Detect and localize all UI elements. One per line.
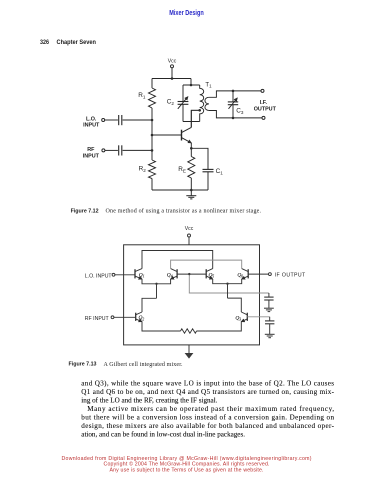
transistor Q5 (136, 312, 142, 322)
Vcc terminal (171, 65, 174, 79)
svg-text:One method of using a transist: One method of using a transistor as a no… (106, 208, 262, 215)
svg-text:RF: RF (87, 147, 95, 153)
wire secondary top (209, 91, 261, 97)
svg-text:Q5: Q5 (209, 272, 215, 278)
wire bases to bypass (189, 274, 269, 293)
svg-text:326: 326 (40, 39, 49, 46)
capacitor bypass B (265, 317, 274, 334)
svg-text:INPUT: INPUT (83, 153, 100, 159)
svg-text:Q1: Q1 (139, 272, 145, 278)
IF output terminal (248, 273, 271, 276)
resistor R1 (149, 88, 156, 108)
wire emitter (190, 143, 192, 148)
wire Q6 base to bypass (247, 316, 269, 318)
footer (62, 456, 312, 474)
svg-text:L.O.: L.O. (86, 116, 97, 122)
resistor RE (188, 148, 195, 190)
svg-text:R1: R1 (138, 92, 146, 99)
labels fig 7.12 (83, 59, 277, 176)
wire tap to collector (191, 110, 199, 127)
wire bases Q2-Q3 (177, 273, 206, 275)
capacitor C2 variable (178, 85, 189, 122)
transistor Q1 (182, 127, 192, 142)
transistor Q3 (206, 269, 227, 284)
wire collectors Q1-Q3 (142, 251, 213, 269)
wire tank top (183, 84, 200, 86)
svg-text:Q2: Q2 (139, 315, 145, 321)
transistor Q6 (241, 312, 247, 322)
capacitor bypass A (264, 293, 273, 308)
svg-text:Mixer Design: Mixer Design (169, 8, 204, 17)
RF input terminal (102, 149, 118, 152)
L.O. input terminal (102, 119, 118, 122)
svg-text:RF INPUT: RF INPUT (85, 316, 110, 322)
ground bypass B (265, 334, 275, 337)
IF output terminal top (261, 89, 264, 92)
junction dots fig 7.13 (155, 273, 228, 285)
ground (186, 190, 196, 199)
wire emitters down left (156, 284, 158, 299)
svg-text:Q4: Q4 (167, 272, 173, 278)
wire Q5 collector (142, 298, 157, 312)
body text (81, 380, 334, 439)
wire secondary bottom (209, 111, 262, 118)
transformer T1 secondary (205, 97, 209, 110)
wire LO to bus (123, 119, 152, 121)
IF output terminal bottom (262, 116, 265, 119)
capacitor LO coupling (119, 115, 122, 125)
svg-text:ing of the LO and the RF, crea: ing of the LO and the RF, creating the I… (81, 397, 217, 405)
wire collector (191, 110, 199, 127)
svg-text:INPUT: INPUT (83, 123, 100, 129)
wire emitters down right (227, 284, 229, 298)
transformer T1 primary (200, 85, 204, 122)
wire Q5 emitter (142, 322, 181, 331)
svg-text:Any use is subject to the Term: Any use is subject to the Terms of Use a… (110, 468, 264, 474)
svg-text:Chapter Seven: Chapter Seven (57, 39, 97, 46)
svg-text:T1: T1 (205, 82, 212, 88)
svg-text:A Gilbert cell integrated mixe: A Gilbert cell integrated mixer. (104, 362, 184, 368)
svg-text:C2: C2 (167, 98, 175, 105)
svg-text:Q1 and Q6 to be on, and next Q: Q1 and Q6 to be on, and next Q4 and Q5 t… (81, 388, 334, 396)
svg-text:design, these mixers are also: design, these mixers are also available … (81, 422, 334, 430)
svg-text:I.F.: I.F. (260, 100, 268, 106)
svg-text:IF OUTPUT: IF OUTPUT (275, 273, 306, 279)
capacitor C1 (191, 148, 213, 190)
resistor emitter degeneration (181, 329, 197, 333)
wire Q6 emitter (197, 322, 242, 331)
wire bottom rail (152, 189, 208, 191)
wire to tank (190, 79, 192, 86)
svg-text:but there will be a conversion: but there will be a conversion loss inst… (81, 414, 334, 422)
transistor Q2 (157, 269, 178, 284)
RF input terminal (111, 316, 136, 319)
svg-text:ation, and can be found in low: ation, and can be found in low-cost dual… (81, 431, 245, 439)
svg-text:Many active mixers can be oper: Many active mixers can be operated past … (87, 405, 334, 413)
IC box (124, 245, 260, 345)
svg-text:Vcc: Vcc (168, 59, 177, 65)
svg-text:C1: C1 (216, 168, 224, 175)
resistor R2 (149, 160, 156, 179)
transistor Q4 (228, 269, 249, 284)
svg-text:and Q3), while the square wave: and Q3), while the square wave LO is inp… (81, 380, 334, 388)
junction dots fig 7.12 (151, 77, 235, 191)
wire RF to bus (123, 149, 152, 151)
ground (185, 345, 194, 359)
Vcc terminal (188, 234, 191, 245)
capacitor C3 variable (228, 91, 238, 118)
wire left bus (151, 79, 153, 191)
svg-text:OUTPUT: OUTPUT (254, 106, 277, 112)
capacitor RF coupling (119, 145, 122, 155)
labels fig 7.13 (85, 226, 306, 322)
wire Q6 collector (228, 298, 242, 312)
ground bypass A (264, 308, 274, 311)
wire top rail (152, 78, 191, 80)
svg-text:Figure 7.13: Figure 7.13 (69, 362, 97, 368)
svg-text:L.O. INPUT: L.O. INPUT (85, 273, 113, 279)
transistor Q1 (135, 269, 157, 284)
svg-text:RE: RE (178, 166, 186, 173)
wire base (152, 134, 181, 136)
wire tank bottom (183, 121, 200, 123)
svg-text:Vcc: Vcc (185, 226, 194, 232)
svg-text:R2: R2 (139, 166, 147, 173)
L.O. input terminal (112, 273, 135, 276)
svg-text:C3: C3 (236, 107, 244, 114)
svg-text:Q6: Q6 (237, 272, 243, 278)
svg-text:Q3: Q3 (235, 315, 241, 321)
svg-text:Figure 7.12: Figure 7.12 (71, 209, 99, 215)
wire collectors Q2-Q4 (171, 260, 242, 269)
